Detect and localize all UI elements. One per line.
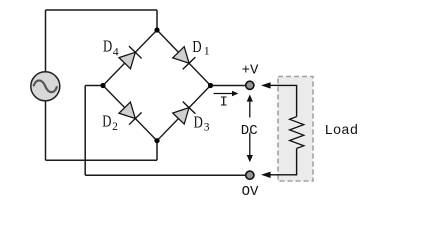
wire bridge arm bottom-left xyxy=(103,86,157,141)
label D1 xyxy=(192,37,210,57)
DC arrow down xyxy=(247,133,253,163)
svg-text:4: 4 xyxy=(113,46,119,58)
svg-text:OV: OV xyxy=(242,184,259,199)
wire left vertical down to 0V rail xyxy=(84,86,86,176)
svg-text:+V: +V xyxy=(242,62,259,78)
wire AC source top lead xyxy=(45,10,47,72)
svg-text:D: D xyxy=(102,112,111,131)
DC arrow up xyxy=(247,94,253,117)
diode D2 xyxy=(118,102,141,125)
svg-text:DC: DC xyxy=(241,123,258,139)
svg-text:1: 1 xyxy=(204,45,210,57)
node top xyxy=(154,27,159,32)
wire right node to +V terminal xyxy=(211,85,246,87)
arrow from load to +V terminal xyxy=(261,82,279,88)
node right xyxy=(208,83,213,88)
wire bridge arm top-left xyxy=(103,30,157,86)
wire top horizontal from source to top node xyxy=(46,9,158,11)
arrow from load to 0V terminal xyxy=(261,172,279,178)
diode D4 xyxy=(118,46,141,69)
wire top node drop xyxy=(156,10,158,30)
label D4 xyxy=(103,36,119,58)
svg-text:D: D xyxy=(192,37,201,56)
svg-text:I: I xyxy=(220,95,228,111)
svg-text:3: 3 xyxy=(204,121,210,133)
diode D1 xyxy=(172,46,195,69)
node left xyxy=(100,83,105,88)
label 0V xyxy=(242,184,259,200)
current arrow I xyxy=(214,91,239,97)
svg-text:D: D xyxy=(103,36,112,55)
label DC xyxy=(241,123,258,139)
node bottom xyxy=(154,138,159,143)
wire left node stub xyxy=(85,85,103,87)
AC source xyxy=(31,72,60,101)
label +V xyxy=(242,62,259,78)
resistor Load xyxy=(290,117,304,149)
load dashed box xyxy=(278,77,313,182)
svg-text:2: 2 xyxy=(112,121,118,133)
wire bridge arm top-right xyxy=(157,30,211,86)
label D2 xyxy=(102,112,118,134)
label Load xyxy=(325,123,359,139)
load top lead wire xyxy=(279,85,297,116)
label I xyxy=(220,95,228,111)
wire bottom horizontal from source to bottom node xyxy=(46,159,158,161)
wire 0V rail to 0V terminal xyxy=(85,174,246,176)
wire AC source bottom lead xyxy=(45,101,47,160)
diode D3 xyxy=(172,102,195,125)
svg-text:Load: Load xyxy=(325,123,359,139)
wire bridge arm bottom-right xyxy=(157,86,211,141)
load bottom lead wire xyxy=(279,148,297,174)
terminal +V xyxy=(246,81,254,89)
svg-text:D: D xyxy=(194,113,203,132)
terminal 0V xyxy=(246,171,254,179)
label D3 xyxy=(194,113,210,134)
wire bottom node drop xyxy=(156,141,158,161)
